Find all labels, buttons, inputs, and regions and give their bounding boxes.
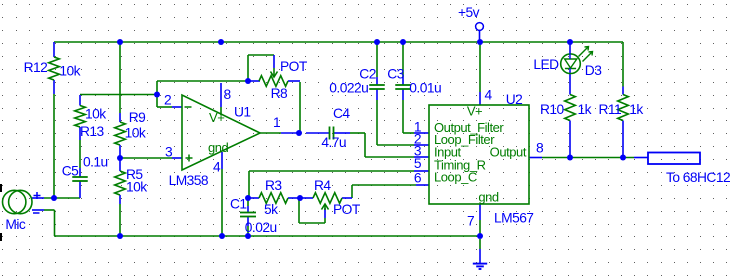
svg-text:gnd: gnd xyxy=(208,140,229,155)
svg-text:10k: 10k xyxy=(85,107,106,122)
svg-text:To 68HC12: To 68HC12 xyxy=(666,170,730,185)
svg-text:C5: C5 xyxy=(62,164,79,179)
svg-text:V+: V+ xyxy=(209,110,224,125)
svg-text:C2: C2 xyxy=(359,67,376,82)
svg-text:LM567: LM567 xyxy=(494,211,533,226)
svg-text:10k: 10k xyxy=(59,64,80,79)
svg-text:R3: R3 xyxy=(265,178,282,193)
svg-text:C1: C1 xyxy=(230,197,247,212)
svg-text:gnd: gnd xyxy=(478,190,499,205)
svg-text:U2: U2 xyxy=(506,92,523,107)
svg-text:4: 4 xyxy=(213,160,221,175)
svg-text:2: 2 xyxy=(164,93,171,108)
svg-text:8: 8 xyxy=(536,141,544,156)
svg-text:5k: 5k xyxy=(264,202,278,217)
svg-text:10k: 10k xyxy=(125,126,146,141)
svg-text:C3: C3 xyxy=(387,67,404,82)
svg-text:LM358: LM358 xyxy=(169,173,209,188)
svg-text:0.022u: 0.022u xyxy=(329,81,368,96)
svg-text:R9: R9 xyxy=(129,110,146,125)
svg-text:8: 8 xyxy=(224,87,232,102)
svg-text:R8: R8 xyxy=(271,86,288,101)
svg-text:V+: V+ xyxy=(467,104,482,119)
svg-text:C4: C4 xyxy=(333,106,350,121)
svg-text:4: 4 xyxy=(485,88,493,103)
svg-text:U1: U1 xyxy=(234,105,251,120)
svg-text:LED: LED xyxy=(533,57,559,72)
svg-text:1k: 1k xyxy=(629,102,643,117)
svg-text:R13: R13 xyxy=(80,124,105,139)
svg-text:D3: D3 xyxy=(585,63,602,78)
svg-text:POT: POT xyxy=(333,202,361,217)
svg-text:1: 1 xyxy=(273,115,280,130)
svg-text:1k: 1k xyxy=(578,102,592,117)
svg-text:3: 3 xyxy=(165,145,173,160)
svg-text:R10: R10 xyxy=(540,102,565,117)
svg-text:5: 5 xyxy=(414,156,422,171)
svg-text:7: 7 xyxy=(467,214,474,229)
svg-text:Mic: Mic xyxy=(5,217,25,232)
svg-text:0.02u: 0.02u xyxy=(245,220,277,235)
svg-text:0.1u: 0.1u xyxy=(83,155,108,170)
svg-text:6: 6 xyxy=(414,171,422,186)
svg-text:Output: Output xyxy=(490,145,527,160)
svg-text:+5v: +5v xyxy=(458,5,480,20)
svg-text:R4: R4 xyxy=(314,178,331,193)
svg-text:POT: POT xyxy=(280,59,308,74)
svg-text:R11: R11 xyxy=(599,102,622,117)
svg-text:0.01u: 0.01u xyxy=(409,81,441,96)
svg-text:Loop_C: Loop_C xyxy=(434,170,477,185)
svg-text:10k: 10k xyxy=(126,180,147,195)
svg-text:4.7u: 4.7u xyxy=(321,135,346,150)
svg-text:R12: R12 xyxy=(24,60,48,75)
